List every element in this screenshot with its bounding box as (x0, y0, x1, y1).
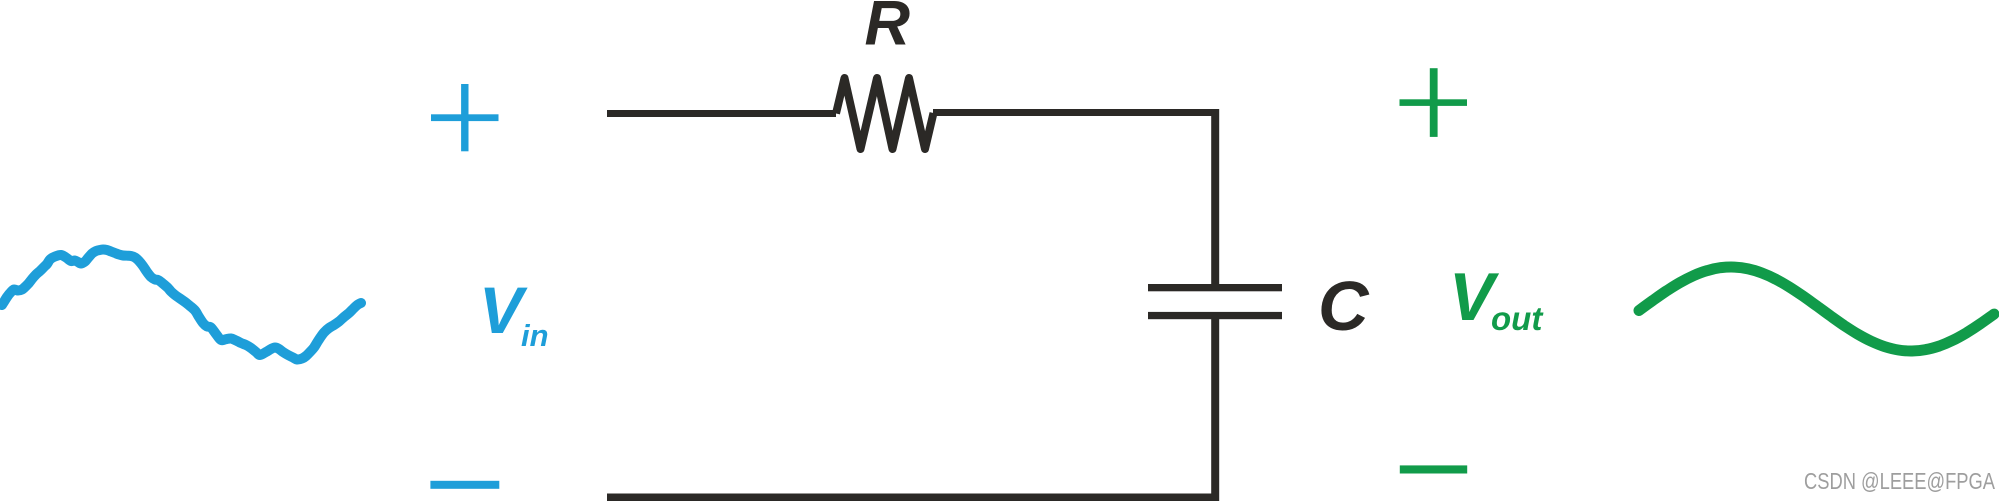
input waveform Vin (noisy sine) (2, 250, 361, 360)
svg-text:out: out (1491, 300, 1544, 337)
minus sign (Vout -) (1400, 465, 1467, 473)
svg-text:R: R (865, 0, 911, 59)
resistor R (zigzag) (836, 78, 934, 149)
wire: vertical down from top wire to capacitor top plate (1211, 109, 1219, 284)
svg-text:C: C (1318, 267, 1370, 345)
output waveform Vout (smooth sine) (1639, 267, 1994, 351)
svg-text:CSDN @LEEE@FPGA: CSDN @LEEE@FPGA (1804, 468, 1995, 494)
wire: bottom horizontal (607, 494, 1219, 501)
svg-text:in: in (521, 318, 549, 353)
capacitor C (two plates) (1148, 284, 1282, 291)
minus sign (Vin -) (430, 481, 499, 489)
wire: top-left horizontal (607, 110, 836, 117)
wire: vertical from capacitor bottom plate to bottom wire (1211, 319, 1219, 501)
wire: top-right horizontal (933, 109, 1219, 116)
plus sign (Vin +) (431, 84, 499, 151)
plus sign (Vout +) (1400, 68, 1468, 137)
